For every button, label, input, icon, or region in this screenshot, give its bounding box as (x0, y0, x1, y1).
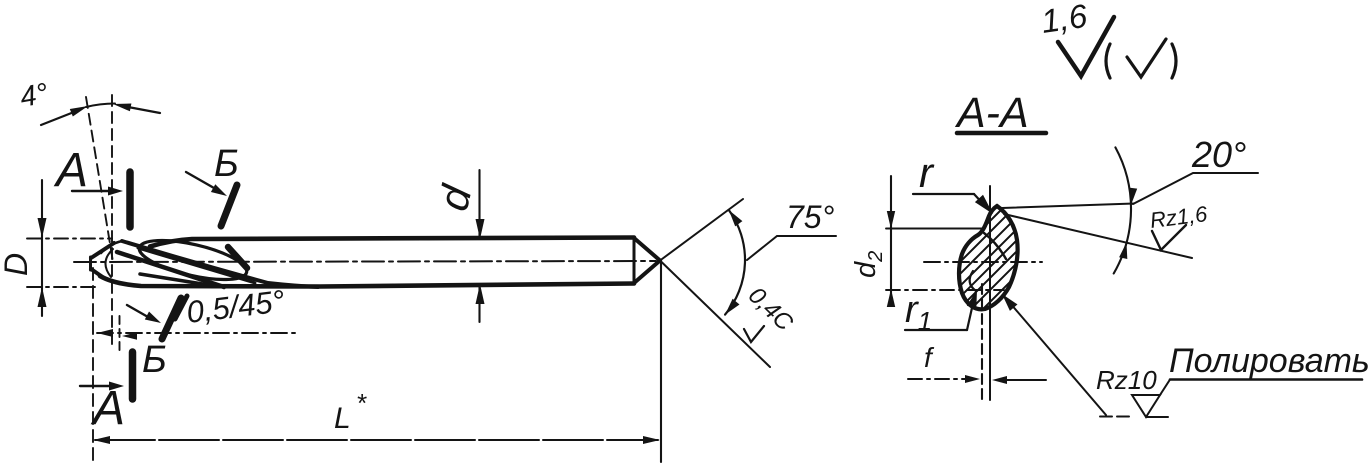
20 degree lower line (1004, 214, 1192, 258)
section bar A top (126, 172, 134, 227)
4 degree dimension arrows (70, 104, 132, 117)
75 degree angle lower line (660, 261, 770, 368)
75 degree arc (725, 210, 745, 315)
bracket roughness check mark (1106, 44, 1110, 78)
tooth inner curl (970, 271, 976, 291)
L left extension line (92, 268, 94, 462)
section A-A title underline (957, 131, 1046, 136)
chamfer leader line (97, 332, 295, 334)
shank bottom edge (100, 276, 634, 287)
r leader (913, 193, 974, 195)
section vertical centerline (989, 186, 991, 400)
section bar A bottom (129, 352, 137, 399)
shank top edge (150, 238, 634, 247)
section bar B bottom (162, 298, 181, 339)
svg-text:D: D (0, 253, 34, 276)
polish leader line (1004, 296, 1106, 415)
section arrow B bottom (145, 312, 161, 324)
section horizontal centerline (924, 261, 1042, 263)
head tip inner arc (105, 249, 113, 277)
svg-text:А-А: А-А (954, 89, 1029, 137)
d2 dimension line (890, 176, 892, 306)
svg-text:20°: 20° (1191, 134, 1246, 175)
top roughness check mark (1058, 17, 1114, 76)
d2 upper extension (886, 228, 984, 230)
D extension lines (27, 238, 112, 240)
20 degree leader (1133, 173, 1258, 204)
20 degree upper line (1002, 204, 1134, 209)
20 degree arc (1114, 147, 1131, 273)
svg-text:4°: 4° (18, 78, 51, 114)
tooth cross-section outline (959, 206, 1018, 309)
polish baseline dash (1100, 416, 1130, 418)
tilted 4-degree line (86, 97, 113, 262)
head top-left outline arc (101, 241, 122, 253)
f dimension arrows (908, 378, 966, 380)
dimension d line and arrows (478, 170, 480, 237)
Rz1,6 check mark (1152, 225, 1186, 250)
svg-text:1,6: 1,6 (1039, 0, 1090, 40)
r1 leader (905, 329, 967, 331)
svg-text:А: А (90, 382, 125, 435)
75 degree angle upper line (660, 199, 743, 261)
svg-text:Полировать: Полировать (1169, 342, 1368, 380)
L right extension line (from tip) (660, 262, 662, 462)
cone bottom edge (634, 261, 660, 284)
dimension D line and arrows (41, 180, 43, 316)
cutting edge thick stroke 1 (117, 252, 224, 287)
chamfer second arrow (122, 332, 137, 339)
tooth inner face line (984, 233, 1006, 259)
section arrow A top (108, 187, 123, 196)
chamfer leader tick (175, 296, 187, 319)
svg-text:L: L (334, 402, 351, 435)
chamfer second vertical dash line (119, 316, 121, 352)
dimension L line (95, 439, 658, 441)
svg-text:75°: 75° (786, 199, 835, 235)
cone top edge (634, 238, 660, 261)
svg-text:Rz10: Rz10 (1096, 365, 1157, 395)
section arrow A bottom (109, 382, 124, 391)
tooth hatching (870, 200, 1114, 318)
roughness symbol riser (1160, 380, 1170, 396)
0,4C check mark (744, 326, 764, 342)
svg-text:Б: Б (142, 339, 167, 381)
cone shoulder line (633, 240, 636, 282)
svg-text:*: * (356, 388, 367, 418)
f second extension line (981, 284, 983, 400)
flute silhouette curve (122, 241, 318, 287)
vertical section trace line (111, 95, 113, 345)
flute lower shade stroke (140, 274, 212, 286)
section bar B top (221, 185, 237, 226)
d2 lower extension (886, 289, 1004, 291)
cutting edge thick stroke 2 (138, 248, 255, 283)
centerline of tool axis (74, 261, 656, 262)
flute dark mark (228, 247, 247, 268)
svg-text:А: А (53, 144, 88, 197)
polish shelf line (1170, 378, 1362, 381)
roughness triangle symbol (1132, 395, 1160, 417)
head tip lower edge (91, 269, 104, 278)
head tip upper edge (91, 243, 114, 258)
section arrow B top (211, 184, 227, 196)
head tip vertical face (89, 257, 92, 270)
svg-text:Б: Б (214, 143, 239, 185)
svg-text:r: r (919, 149, 935, 196)
75 degree leader (747, 236, 836, 260)
flute face ellipse (136, 233, 250, 288)
